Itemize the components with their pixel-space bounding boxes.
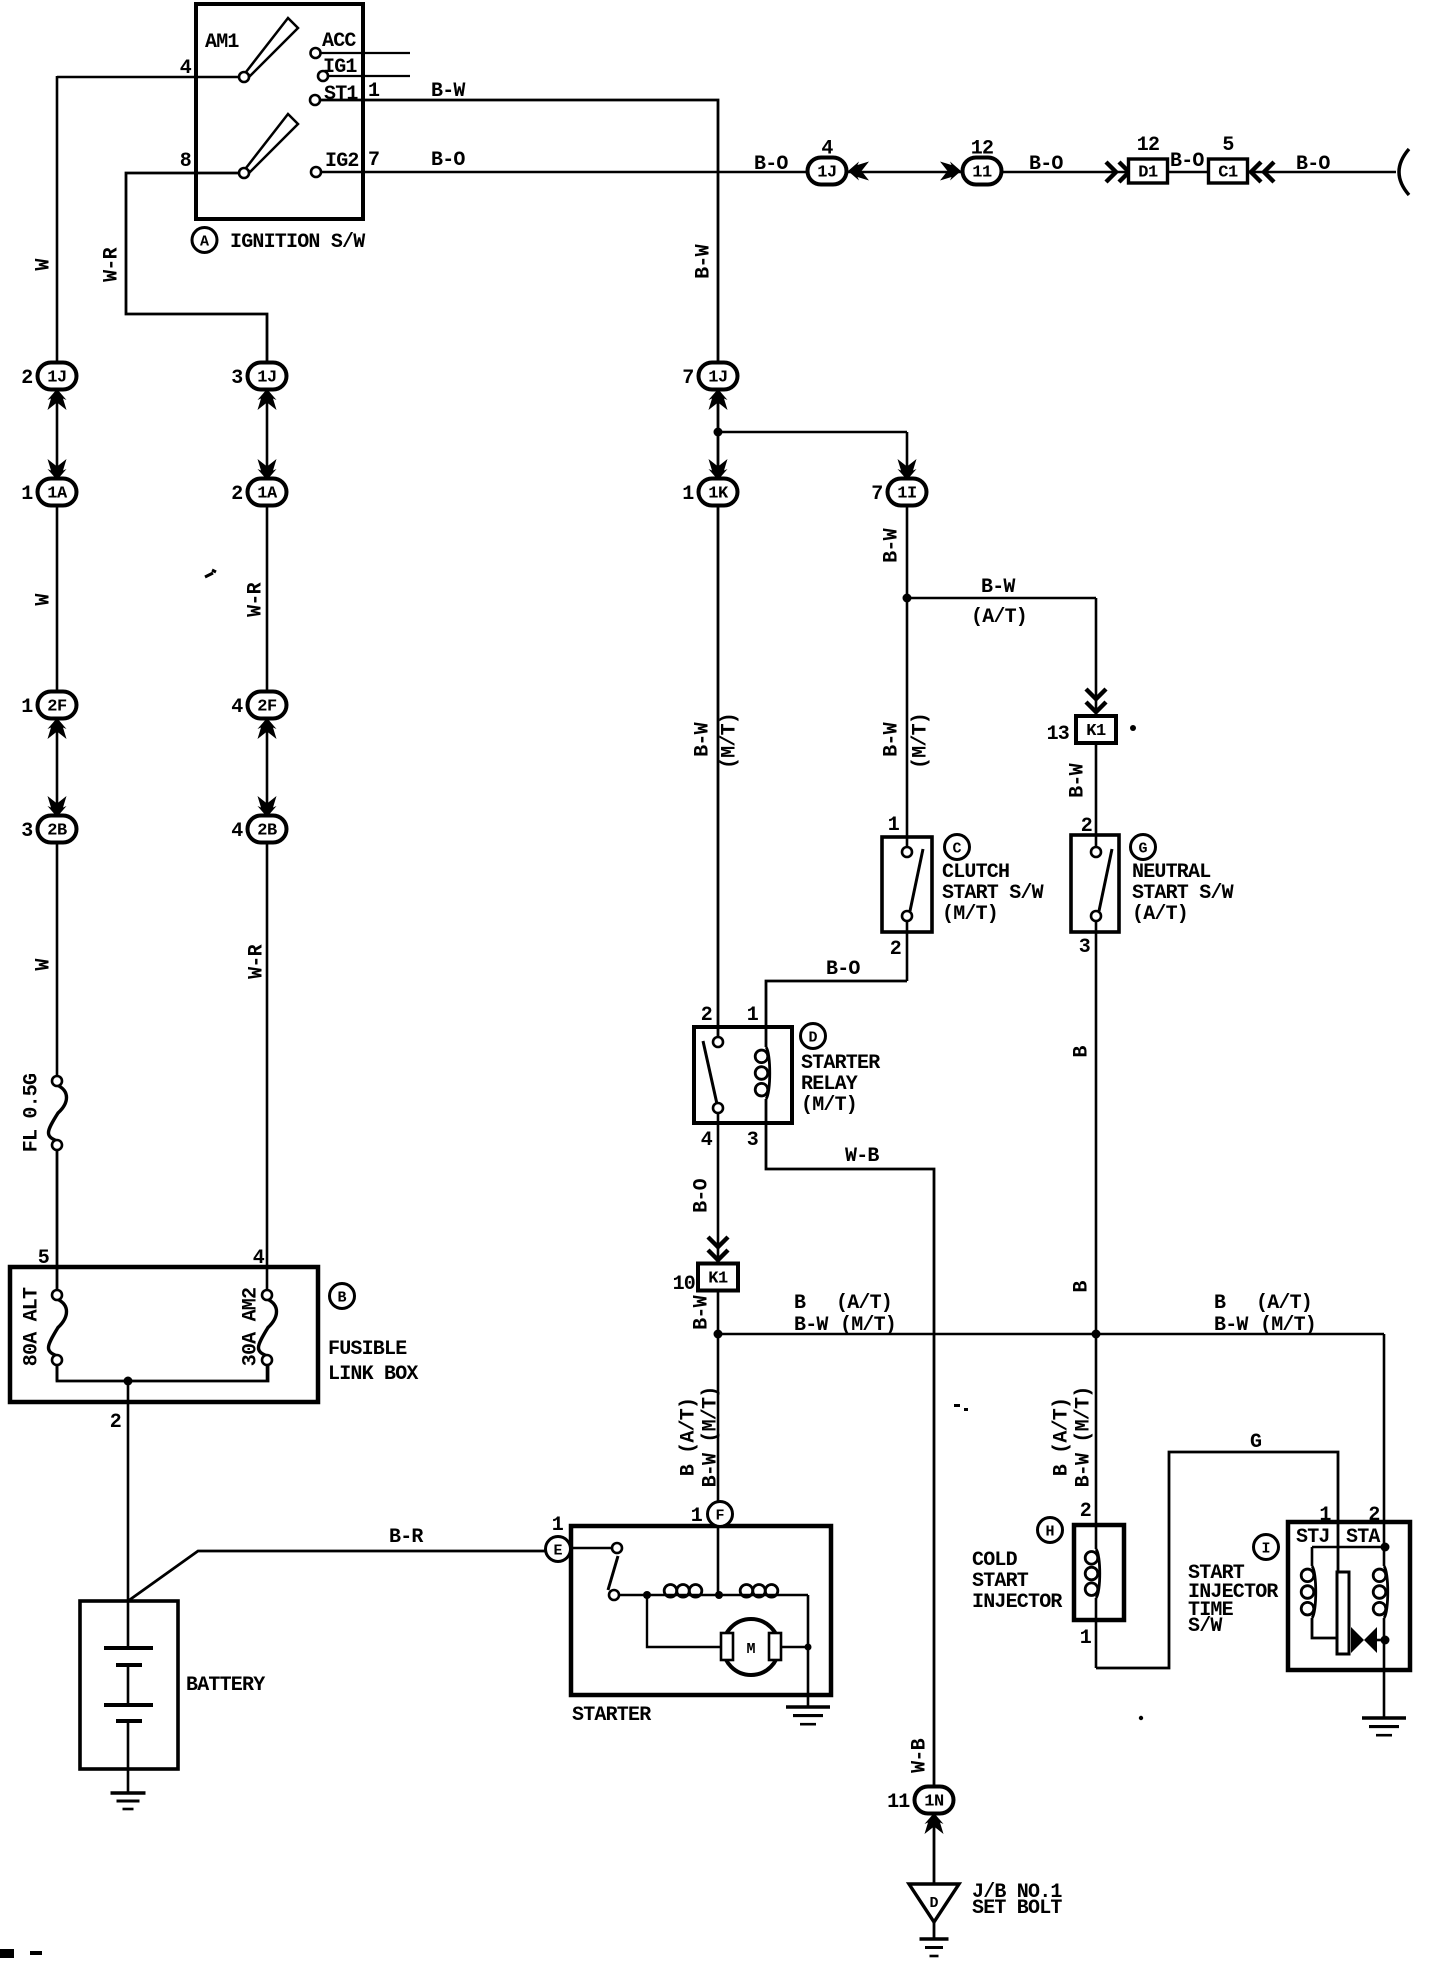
wire to motor [647, 1595, 723, 1647]
svg-text:D: D [808, 1030, 817, 1047]
ground starter [786, 1707, 830, 1724]
svg-text:2F: 2F [47, 698, 67, 717]
circle C [945, 835, 970, 860]
junction starter motor branch [643, 1591, 651, 1599]
svg-text:FUSIBLE: FUSIBLE [328, 1338, 407, 1361]
arrow below 1N [925, 1813, 944, 1834]
svg-text:1N: 1N [924, 1793, 944, 1812]
wire triangle to ground [933, 1922, 936, 1940]
svg-text:B-W: B-W [692, 722, 715, 756]
junction F wire [715, 1591, 723, 1599]
connector 1 2F [21, 692, 76, 720]
svg-text:ST1: ST1 [324, 83, 358, 106]
chevrons into D1 [1106, 162, 1129, 182]
svg-text:2: 2 [701, 1004, 712, 1027]
svg-text:3: 3 [1079, 936, 1090, 959]
connector 2 1A [231, 479, 286, 507]
svg-text:B-O: B-O [691, 1178, 714, 1212]
wire motor to ground line [781, 1646, 808, 1648]
connector 1 1A [21, 479, 76, 507]
connector 4 2B [231, 816, 286, 844]
svg-text:W-B: W-B [909, 1738, 932, 1772]
blade AM1 [246, 18, 298, 76]
wire ignition AM1 horizontal [57, 76, 244, 79]
wire IG1 stub [329, 75, 410, 77]
svg-text:1J: 1J [257, 369, 276, 388]
wire battery B-R to starter [128, 1551, 549, 1601]
svg-text:H: H [1045, 1524, 1054, 1541]
wire G injector to time switch [1096, 1452, 1338, 1668]
svg-text:ACC: ACC [322, 30, 356, 53]
connector 10 K1 [698, 1264, 738, 1291]
svg-text:K1: K1 [1086, 722, 1106, 741]
connector 11 1N [887, 1787, 953, 1815]
wire clutch to starter relay B-O [766, 981, 907, 1047]
wire coil2 to right [778, 1594, 808, 1596]
junction B-W branch [714, 428, 723, 437]
svg-text:3: 3 [747, 1129, 758, 1152]
circle F [708, 1502, 733, 1527]
svg-text:B: B [794, 1292, 806, 1315]
continuation mark [1399, 149, 1409, 195]
ignition switch box A [196, 4, 363, 219]
connector 12 D1 [1129, 159, 1168, 183]
wire B-W A/T branch [907, 597, 1096, 600]
arrow below 2F col2 [258, 718, 277, 739]
svg-text:B-W: B-W [693, 244, 716, 278]
svg-text:1: 1 [21, 483, 33, 506]
starter relay box D [694, 1027, 792, 1123]
svg-text:W: W [33, 959, 56, 971]
svg-text:2: 2 [110, 1411, 121, 1434]
wire ST1 B-W [321, 100, 718, 1042]
ground battery [111, 1793, 146, 1809]
svg-text:B: B [1071, 1046, 1094, 1058]
svg-text:2: 2 [231, 483, 242, 506]
triangle ground D J/B [909, 1884, 959, 1922]
wire B-W middle lower / relay pin4 to starter [717, 1108, 720, 1595]
svg-text:3: 3 [231, 367, 242, 390]
svg-text:E: E [553, 1543, 562, 1560]
coil relay [755, 1047, 770, 1099]
svg-text:C: C [952, 841, 961, 858]
wire fusible link bottom bus [57, 1360, 268, 1381]
fuse 80A ALT [48, 1290, 66, 1365]
svg-text:5: 5 [1222, 134, 1233, 157]
scan speck 4 [1139, 1716, 1143, 1720]
contact relay bottom [713, 1103, 723, 1113]
wire ignition AM2 to column 2 [126, 173, 267, 376]
svg-text:1: 1 [21, 696, 33, 719]
arrow below 1J mid [709, 389, 728, 410]
junction B bus left [714, 1330, 723, 1339]
svg-text:IGNITION S/W: IGNITION S/W [230, 231, 365, 254]
connector 2 1J [21, 363, 76, 391]
wire left coil bottom [1312, 1618, 1337, 1638]
connector 12 11 [963, 138, 1002, 185]
svg-text:3: 3 [21, 820, 32, 843]
contact starter switch bottom [609, 1590, 619, 1600]
svg-text:B-W: B-W [1067, 763, 1090, 797]
arrow below 2F col1 [48, 718, 67, 739]
svg-text:12: 12 [971, 138, 993, 161]
clutch start switch box C [882, 837, 932, 932]
chevrons into K1 10 [708, 1237, 728, 1260]
neutral start switch box G [1071, 835, 1119, 932]
junction motor ground [805, 1644, 812, 1651]
junction STA bottom [1381, 1636, 1390, 1645]
svg-text:4: 4 [231, 820, 243, 843]
wire left coil top [1311, 1547, 1314, 1566]
arrow above 1K [709, 459, 728, 480]
svg-text:RELAY: RELAY [801, 1073, 858, 1096]
junction STA top [1381, 1543, 1390, 1552]
blade AM2 [246, 114, 298, 172]
wire contact to coil1 [619, 1594, 664, 1596]
circle B [330, 1284, 355, 1309]
wire E to contact [571, 1547, 612, 1549]
svg-text:1I: 1I [897, 485, 916, 504]
svg-text:(M/T): (M/T) [801, 1094, 857, 1117]
svg-text:1J: 1J [708, 369, 727, 388]
svg-text:2F: 2F [257, 698, 277, 717]
connector 7 1J mid [682, 363, 737, 391]
starter box [571, 1526, 831, 1695]
svg-text:B-O: B-O [1029, 153, 1063, 176]
svg-text:2: 2 [1080, 1500, 1091, 1523]
wire clutch pin2 down [906, 916, 909, 981]
svg-text:1K: 1K [708, 485, 729, 504]
arrow above 1I [898, 459, 917, 480]
svg-text:1J: 1J [47, 369, 66, 388]
svg-text:1: 1 [1319, 1504, 1331, 1527]
wire time switch top link [1312, 1546, 1384, 1549]
start injector time switch box I [1288, 1522, 1410, 1670]
svg-text:4: 4 [253, 1247, 265, 1270]
contact relay top [713, 1037, 723, 1047]
svg-text:START S/W: START S/W [942, 882, 1044, 905]
circle E [546, 1537, 571, 1562]
contact ST1 [310, 95, 320, 105]
svg-text:2: 2 [1081, 815, 1092, 838]
svg-text:8: 8 [180, 150, 191, 173]
svg-text:B-W: B-W [794, 1314, 828, 1337]
svg-text:B-O: B-O [1296, 153, 1330, 176]
scan speck 5 [954, 1404, 960, 1407]
svg-text:1: 1 [1080, 1627, 1092, 1650]
svg-text:(A/T): (A/T) [1256, 1292, 1312, 1315]
svg-text:W-R: W-R [246, 944, 269, 978]
svg-text:NEUTRAL: NEUTRAL [1132, 861, 1210, 884]
connector 3 2B [21, 816, 76, 844]
svg-text:1: 1 [888, 814, 900, 837]
svg-text:K1: K1 [708, 1270, 728, 1289]
connector 5 C1 [1209, 159, 1248, 183]
svg-text:START: START [972, 1570, 1029, 1593]
svg-text:30A AM2: 30A AM2 [240, 1288, 263, 1366]
svg-text:1A: 1A [47, 485, 68, 504]
svg-text:(A/T): (A/T) [971, 606, 1027, 629]
svg-text:2: 2 [21, 367, 32, 390]
connector 7 1I [871, 479, 926, 507]
cold start injector box H [1074, 1525, 1124, 1620]
starter field coil 2 [740, 1585, 778, 1598]
contact bowtie [1351, 1627, 1384, 1653]
svg-text:1: 1 [691, 1505, 703, 1528]
arrow female into 1J [848, 162, 869, 181]
circle I [1254, 1535, 1279, 1560]
wire battery to ground [127, 1769, 130, 1793]
svg-text:B: B [337, 1290, 346, 1307]
svg-text:IG2: IG2 [325, 150, 359, 173]
svg-text:D1: D1 [1138, 164, 1158, 183]
connector 4 1J [808, 138, 847, 185]
svg-text:START S/W: START S/W [1132, 882, 1234, 905]
contact neutral top [1091, 847, 1101, 857]
svg-text:7: 7 [682, 367, 693, 390]
ground time switch [1362, 1718, 1406, 1735]
junction B bus mid [1092, 1330, 1101, 1339]
contact neutral bottom [1091, 911, 1101, 921]
wire cold start injector pin1 [1095, 1598, 1098, 1668]
svg-text:1J: 1J [817, 164, 836, 183]
svg-text:STJ: STJ [1296, 1526, 1330, 1549]
svg-text:INJECTOR: INJECTOR [972, 1591, 1062, 1614]
svg-text:B-W (M/T): B-W (M/T) [1073, 1387, 1096, 1488]
svg-text:5: 5 [38, 1247, 49, 1270]
svg-text:B-W: B-W [981, 576, 1015, 599]
svg-text:2: 2 [890, 938, 901, 961]
svg-text:G: G [1138, 841, 1147, 858]
arrow above 2B col1 [48, 796, 67, 817]
svg-text:B-W: B-W [881, 528, 904, 562]
svg-text:B-O: B-O [754, 153, 788, 176]
wire W column 1 vertical [56, 76, 59, 1076]
connector 1 1K [682, 479, 737, 507]
connector 13 K1 [1076, 716, 1116, 743]
svg-text:B-W: B-W [881, 722, 904, 756]
svg-text:W-R: W-R [245, 582, 268, 616]
contact AM1 pivot [239, 72, 249, 82]
svg-text:B-O: B-O [431, 149, 465, 172]
blade starter switch [608, 1556, 618, 1590]
svg-text:(M/T): (M/T) [719, 713, 742, 769]
wire between coils [702, 1594, 740, 1596]
svg-text:(M/T): (M/T) [840, 1314, 896, 1337]
fusible link box B [10, 1267, 318, 1402]
svg-text:D: D [929, 1895, 938, 1912]
scan speck 1 [205, 570, 216, 577]
wire W-R column 2 vertical [266, 376, 269, 1290]
svg-text:B: B [1071, 1281, 1094, 1293]
svg-text:1: 1 [368, 80, 380, 103]
arrow above 1A col1 [48, 459, 67, 480]
svg-text:M: M [746, 1641, 755, 1658]
svg-text:1: 1 [747, 1004, 759, 1027]
scan speck 2 [1130, 725, 1136, 731]
svg-text:B-R: B-R [389, 1526, 423, 1549]
contact starter switch top [612, 1543, 622, 1553]
arrow male into 11 [940, 162, 961, 181]
circle A [192, 228, 217, 253]
wire fusible link to battery [127, 1381, 130, 1601]
scan speck 3 [0, 1949, 14, 1958]
svg-text:7: 7 [871, 483, 882, 506]
svg-text:B-W: B-W [1214, 1314, 1248, 1337]
svg-text:LINK BOX: LINK BOX [328, 1363, 418, 1386]
bimetal strip [1337, 1572, 1349, 1654]
starter field coil 1 [664, 1585, 702, 1598]
connector 4 2F [231, 692, 286, 720]
svg-text:I: I [1261, 1541, 1270, 1558]
fusible link FL 0.5G [48, 1076, 66, 1150]
svg-text:FL 0.5G: FL 0.5G [21, 1073, 44, 1152]
svg-text:AM1: AM1 [205, 31, 239, 54]
arrow below 1J col1 [48, 389, 67, 410]
svg-text:STA: STA [1346, 1526, 1380, 1549]
svg-text:W-R: W-R [101, 247, 124, 281]
svg-text:4: 4 [231, 696, 243, 719]
coil cold start injector [1085, 1549, 1100, 1598]
svg-text:STARTER: STARTER [572, 1704, 651, 1727]
wire B/B-W bus horizontal [718, 1333, 1384, 1336]
circle D [801, 1024, 826, 1049]
svg-text:A: A [200, 234, 209, 251]
junction fusible link bottom [124, 1377, 133, 1386]
wire to neutral start switch [1095, 598, 1098, 852]
svg-text:C1: C1 [1218, 164, 1238, 183]
wire STA to ground [1383, 1618, 1386, 1718]
svg-text:80A ALT: 80A ALT [21, 1287, 44, 1366]
svg-text:B-W (M/T): B-W (M/T) [700, 1387, 723, 1488]
svg-text:11: 11 [887, 1791, 910, 1814]
blade neutral switch [1099, 849, 1112, 911]
contact clutch top [902, 847, 912, 857]
svg-text:10: 10 [673, 1273, 695, 1296]
wire STA branch down [1383, 1334, 1386, 1566]
wire branch to 1I [718, 431, 907, 434]
wire ACC stub [320, 52, 410, 54]
contact ACC [311, 48, 321, 58]
svg-text:W: W [33, 259, 56, 271]
blade clutch switch [910, 849, 923, 911]
chevrons into K1 13 [1086, 689, 1106, 712]
arrow below 1J col2 [258, 389, 277, 410]
circle G [1131, 835, 1156, 860]
coil time switch right [1373, 1566, 1388, 1618]
contact IG2 [311, 167, 321, 177]
svg-text:7: 7 [368, 149, 379, 172]
arrow above 2B col2 [258, 796, 277, 817]
wire IG2 B-O horizontal [322, 171, 1396, 174]
blade relay switch [703, 1041, 717, 1104]
svg-text:F: F [715, 1508, 724, 1525]
wire starter to ground [807, 1595, 810, 1707]
junction B-W AT branch [903, 594, 912, 603]
svg-text:(A/T): (A/T) [1132, 903, 1188, 926]
fuse 30A AM2 [258, 1290, 276, 1365]
svg-text:B (A/T): B (A/T) [678, 1398, 701, 1476]
wire relay pin3 W-B [766, 1099, 934, 1884]
svg-text:4: 4 [821, 138, 833, 161]
svg-text:B-O: B-O [826, 958, 860, 981]
svg-text:1: 1 [552, 1514, 564, 1537]
svg-text:B-W: B-W [691, 1295, 714, 1329]
wire 80A fuse tail [56, 1365, 59, 1381]
battery box [80, 1601, 178, 1769]
svg-text:4: 4 [701, 1129, 713, 1152]
wire B neutral down [1095, 916, 1098, 1549]
svg-text:(M/T): (M/T) [910, 713, 933, 769]
svg-text:W: W [33, 594, 56, 606]
svg-text:12: 12 [1137, 134, 1159, 157]
svg-text:S/W: S/W [1188, 1615, 1222, 1638]
svg-text:(M/T): (M/T) [942, 903, 998, 926]
coil time switch left [1301, 1566, 1316, 1618]
svg-text:B (A/T): B (A/T) [1051, 1398, 1074, 1476]
svg-text:G: G [1250, 1431, 1262, 1454]
ground J/B set bolt [920, 1939, 949, 1956]
circle H [1038, 1518, 1063, 1543]
svg-text:B-O: B-O [1170, 150, 1204, 173]
contact IG1 [318, 71, 328, 81]
svg-text:2: 2 [1368, 1504, 1379, 1527]
svg-text:1: 1 [682, 483, 694, 506]
connector 3 1J [231, 363, 286, 391]
wire column 1 lower [56, 1150, 59, 1290]
svg-text:COLD: COLD [972, 1549, 1018, 1572]
starter motor M [721, 1619, 781, 1675]
chevrons out of C1 [1251, 162, 1274, 182]
svg-text:4: 4 [180, 57, 192, 80]
svg-text:STARTER: STARTER [801, 1052, 880, 1075]
svg-text:1A: 1A [257, 485, 278, 504]
svg-text:2B: 2B [257, 822, 277, 841]
svg-text:(A/T): (A/T) [836, 1292, 892, 1315]
wire 30A fuse tail [266, 1360, 269, 1381]
contact clutch bottom [902, 911, 912, 921]
svg-text:(M/T): (M/T) [1260, 1314, 1316, 1337]
svg-text:IG1: IG1 [323, 56, 357, 79]
svg-text:11: 11 [972, 164, 992, 183]
battery plates [104, 1601, 153, 1769]
svg-text:SET BOLT: SET BOLT [972, 1897, 1062, 1920]
arrow above 1A col2 [258, 459, 277, 480]
wire B-W right branch [906, 432, 909, 852]
svg-text:B: B [1214, 1292, 1226, 1315]
svg-text:2B: 2B [47, 822, 67, 841]
svg-text:BATTERY: BATTERY [186, 1674, 265, 1697]
svg-text:W-B: W-B [845, 1145, 879, 1168]
contact AM2 pivot [239, 168, 249, 178]
svg-text:B-W: B-W [431, 80, 465, 103]
svg-text:CLUTCH: CLUTCH [942, 861, 1009, 884]
svg-text:13: 13 [1047, 723, 1069, 746]
